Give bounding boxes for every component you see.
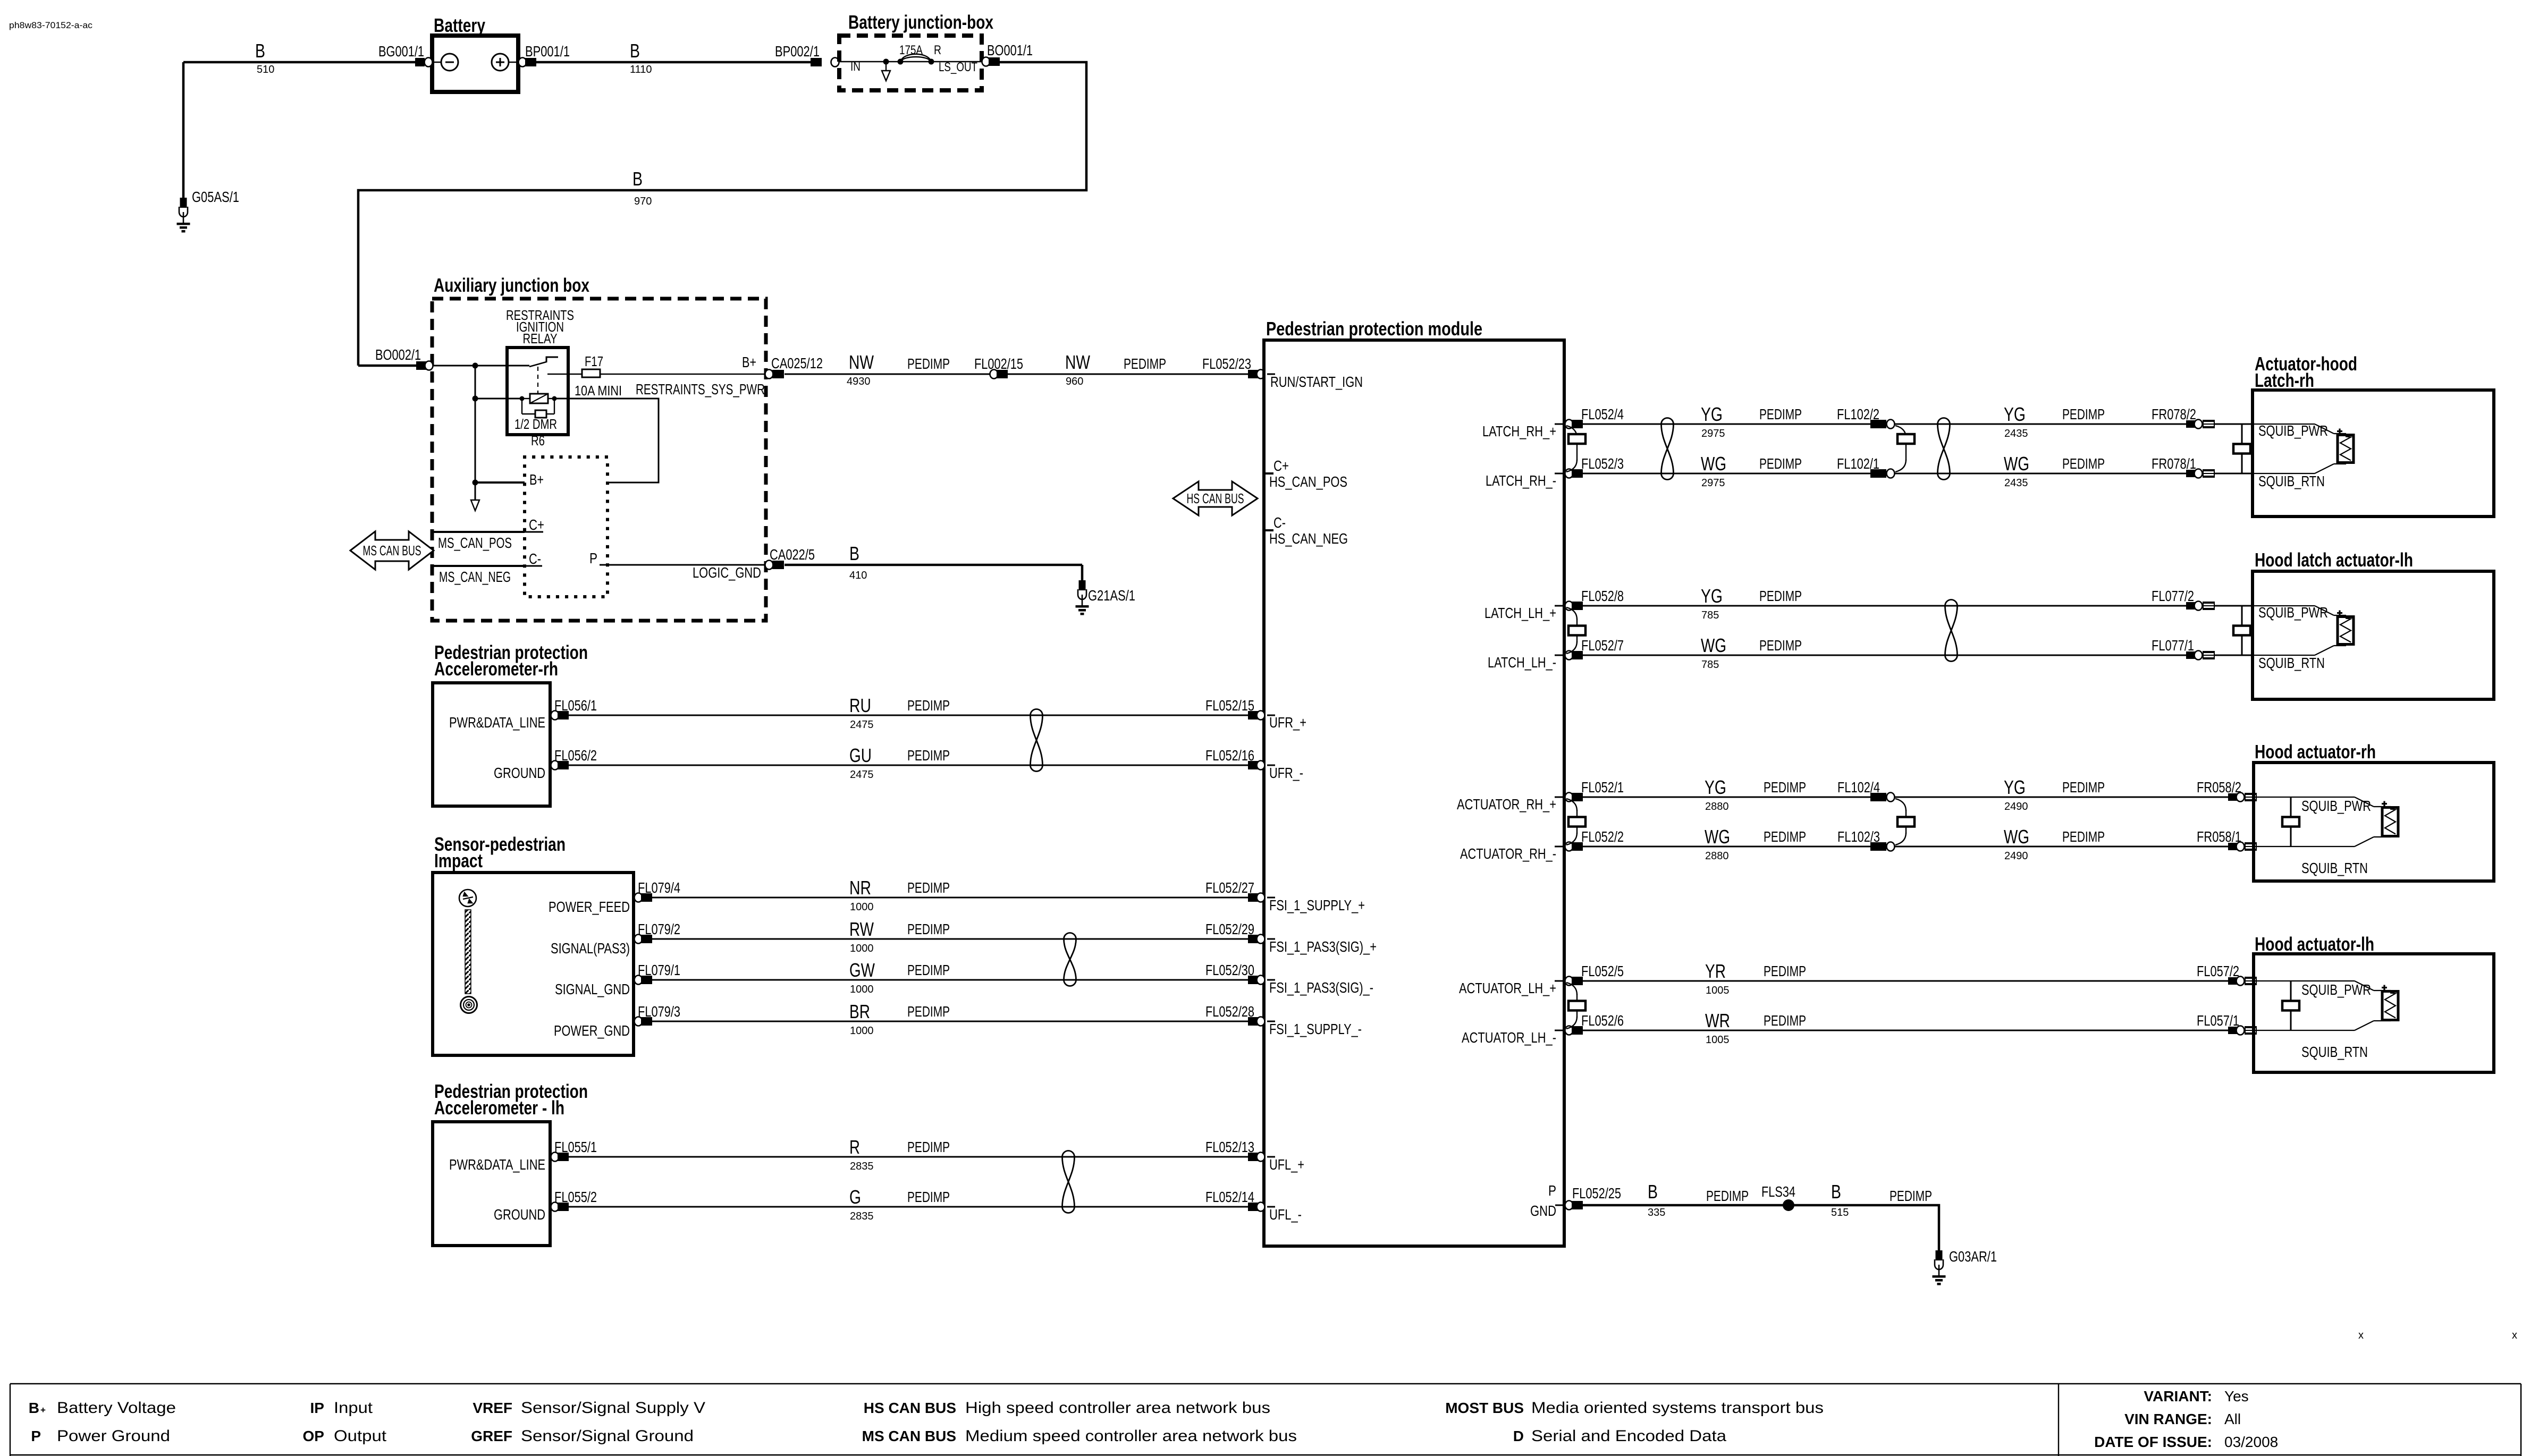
svg-text:B: B — [29, 1400, 39, 1416]
aux box internal module (dotted) — [525, 457, 608, 597]
wire RW 1000 FL079/2 to FL052/29 — [652, 938, 1248, 940]
svg-text:2490: 2490 — [2004, 850, 2028, 862]
svg-text:Serial and Encoded Data: Serial and Encoded Data — [1531, 1427, 1726, 1445]
svg-text:WG: WG — [2004, 826, 2029, 848]
svg-text:IP: IP — [310, 1400, 324, 1416]
svg-text:+: + — [40, 1405, 46, 1415]
wire B 515 — [1789, 1205, 1939, 1250]
squib in hood actuator-lh — [2290, 981, 2292, 1030]
svg-text:MS CAN BUS: MS CAN BUS — [862, 1428, 956, 1444]
svg-text:Battery junction-box: Battery junction-box — [848, 11, 993, 33]
svg-text:C-: C- — [1273, 514, 1286, 531]
svg-text:FSI_1_SUPPLY_-: FSI_1_SUPPLY_- — [1269, 1021, 1362, 1037]
svg-text:Battery: Battery — [434, 14, 485, 36]
svg-text:PEDIMP: PEDIMP — [907, 1139, 950, 1155]
impact sensor coil target icon — [461, 997, 477, 1013]
svg-text:FL052/6: FL052/6 — [1581, 1012, 1624, 1029]
svg-text:PWR&DATA_LINE: PWR&DATA_LINE — [449, 1156, 545, 1173]
svg-text:WR: WR — [1705, 1010, 1730, 1031]
impact sensor fibre optic element — [465, 910, 471, 994]
wire YR 1005 — [1583, 980, 2254, 982]
wire MS_CAN_POS — [433, 531, 525, 533]
svg-text:1110: 1110 — [630, 64, 652, 75]
svg-text:YG: YG — [1701, 403, 1723, 425]
svg-text:NW: NW — [849, 351, 874, 373]
svg-text:R: R — [849, 1136, 860, 1158]
svg-text:PEDIMP: PEDIMP — [1759, 406, 1802, 422]
svg-text:GND: GND — [1530, 1203, 1556, 1219]
svg-text:FL052/27: FL052/27 — [1205, 879, 1254, 896]
svg-text:03/2008: 03/2008 — [2224, 1434, 2278, 1450]
svg-text:Output: Output — [334, 1427, 387, 1445]
svg-text:PEDIMP: PEDIMP — [907, 921, 950, 937]
legend frame — [10, 1383, 2521, 1384]
svg-text:2880: 2880 — [1705, 801, 1729, 812]
relay switch blade — [529, 362, 546, 367]
wire BR 1000 FL079/3 to FL052/28 — [652, 1021, 1248, 1022]
svg-text:FL052/15: FL052/15 — [1205, 697, 1254, 714]
shorting link at FL052/4-3 — [1566, 426, 1577, 438]
svg-text:HS CAN BUS: HS CAN BUS — [864, 1400, 956, 1416]
svg-text:PEDIMP: PEDIMP — [907, 355, 950, 372]
svg-text:PEDIMP: PEDIMP — [1124, 355, 1166, 372]
svg-text:PEDIMP: PEDIMP — [907, 1003, 950, 1020]
svg-text:PEDIMP: PEDIMP — [1759, 455, 1802, 472]
svg-text:970: 970 — [634, 196, 652, 207]
svg-text:PEDIMP: PEDIMP — [2062, 406, 2105, 422]
svg-text:WG: WG — [1701, 453, 1726, 475]
shorting link at FL102 — [1895, 426, 1906, 438]
svg-text:2975: 2975 — [1701, 428, 1725, 439]
svg-text:C-: C- — [529, 551, 541, 567]
battery negative terminal — [441, 54, 458, 71]
svg-text:PEDIMP: PEDIMP — [1706, 1188, 1749, 1204]
shorting link at FL102/4-3 — [1895, 799, 1906, 811]
svg-text:HS_CAN_POS: HS_CAN_POS — [1269, 473, 1347, 490]
svg-text:LATCH_RH_-: LATCH_RH_- — [1486, 472, 1556, 489]
svg-text:785: 785 — [1701, 610, 1719, 621]
battery positive terminal — [492, 54, 509, 71]
svg-text:SQUIB_RTN: SQUIB_RTN — [2258, 655, 2325, 671]
svg-text:PEDIMP: PEDIMP — [907, 962, 950, 978]
svg-text:RUN/START_IGN: RUN/START_IGN — [1270, 374, 1363, 390]
shorting link at FL052/8-7 — [1566, 607, 1577, 620]
svg-text:FR078/2: FR078/2 — [2152, 406, 2196, 422]
svg-text:FL077/2: FL077/2 — [2152, 588, 2194, 604]
svg-text:2975: 2975 — [1701, 477, 1725, 489]
svg-text:All: All — [2224, 1411, 2241, 1427]
wire R 2835 FL055/1 to FL052/13 — [569, 1156, 1248, 1158]
resistor 1/2 DMR — [522, 398, 530, 399]
shorting link at FL077 — [2241, 606, 2243, 655]
svg-text:1000: 1000 — [850, 984, 874, 995]
wire LOGIC_GND — [608, 564, 766, 566]
svg-text:HS CAN BUS: HS CAN BUS — [1187, 490, 1244, 506]
svg-text:CA022/5: CA022/5 — [770, 546, 815, 563]
svg-text:Hood actuator-lh: Hood actuator-lh — [2255, 933, 2374, 955]
svg-text:Battery Voltage: Battery Voltage — [57, 1399, 176, 1417]
wire YG 785 — [1583, 605, 2253, 607]
wire B 410 — [785, 564, 1082, 566]
wire WG 785 — [1583, 655, 2253, 656]
svg-text:RU: RU — [849, 695, 871, 716]
svg-text:G: G — [849, 1186, 861, 1208]
svg-text:Media oriented systems transpo: Media oriented systems transport bus — [1531, 1399, 1824, 1417]
svg-text:POWER_FEED: POWER_FEED — [549, 899, 630, 915]
twisted pair — [1945, 600, 1958, 606]
svg-text:Accelerometer - lh: Accelerometer - lh — [434, 1097, 564, 1119]
svg-text:PEDIMP: PEDIMP — [907, 747, 950, 764]
svg-text:WG: WG — [1705, 826, 1730, 848]
twisted pair — [1031, 709, 1043, 716]
svg-text:B+: B+ — [529, 471, 544, 488]
svg-text:SQUIB_PWR: SQUIB_PWR — [2301, 981, 2371, 998]
svg-text:FL052/25: FL052/25 — [1572, 1185, 1621, 1201]
svg-text:Medium speed controller area n: Medium speed controller area network bus — [965, 1427, 1297, 1445]
svg-text:YR: YR — [1705, 960, 1726, 982]
relay coil — [475, 398, 522, 400]
svg-text:PEDIMP: PEDIMP — [1759, 637, 1802, 654]
svg-text:FR078/1: FR078/1 — [2152, 455, 2196, 472]
svg-text:GROUND: GROUND — [494, 1206, 545, 1223]
svg-text:2490: 2490 — [2004, 801, 2028, 812]
svg-text:UFR_-: UFR_- — [1269, 765, 1303, 781]
svg-text:B: B — [630, 40, 640, 62]
svg-text:PEDIMP: PEDIMP — [1764, 779, 1806, 795]
ground G03AR/1 — [1936, 1250, 1943, 1260]
junction node — [473, 363, 478, 369]
svg-text:Sensor/Signal Supply V: Sensor/Signal Supply V — [521, 1399, 705, 1417]
svg-text:GW: GW — [849, 959, 875, 981]
ground reference arrow — [475, 484, 476, 500]
svg-text:FR058/1: FR058/1 — [2197, 828, 2241, 845]
svg-text:FL052/16: FL052/16 — [1205, 747, 1254, 764]
svg-text:MS CAN BUS: MS CAN BUS — [363, 543, 421, 558]
svg-text:B: B — [255, 40, 265, 62]
svg-text:2475: 2475 — [850, 719, 874, 731]
wire NW 4930 — [785, 374, 1248, 375]
wire BO002/1 to relay — [433, 365, 529, 367]
wire to BO002/1 — [358, 365, 416, 367]
svg-text:Hood actuator-rh: Hood actuator-rh — [2255, 741, 2376, 763]
svg-text:FL052/1: FL052/1 — [1581, 779, 1624, 795]
svg-text:Yes: Yes — [2224, 1388, 2249, 1404]
wire WG 2975 — [1583, 473, 2253, 475]
svg-text:ACTUATOR_LH_-: ACTUATOR_LH_- — [1462, 1029, 1556, 1046]
svg-text:515: 515 — [1831, 1207, 1849, 1218]
svg-text:MS_CAN_NEG: MS_CAN_NEG — [439, 569, 511, 585]
svg-text:PEDIMP: PEDIMP — [2062, 828, 2105, 845]
svg-text:410: 410 — [849, 570, 867, 581]
svg-text:510: 510 — [257, 64, 274, 75]
svg-text:FL002/15: FL002/15 — [974, 355, 1023, 372]
svg-text:SQUIB_RTN: SQUIB_RTN — [2301, 860, 2368, 876]
wire NR 1000 FL079/4 to FL052/27 — [652, 897, 1248, 899]
svg-text:PEDIMP: PEDIMP — [1764, 1012, 1806, 1029]
svg-text:FL052/3: FL052/3 — [1581, 455, 1624, 472]
svg-text:1005: 1005 — [1706, 985, 1730, 996]
svg-text:F17: F17 — [585, 353, 603, 369]
svg-text:LS_OUT: LS_OUT — [939, 60, 977, 74]
shorting link at FR078 — [2241, 424, 2243, 473]
svg-text:SQUIB_PWR: SQUIB_PWR — [2258, 422, 2328, 439]
svg-text:GU: GU — [849, 744, 872, 766]
svg-text:BP001/1: BP001/1 — [525, 43, 570, 60]
svg-text:Power Ground: Power Ground — [57, 1427, 170, 1445]
pin P GND connector FL052/25 — [1555, 1205, 1564, 1206]
wire junction to B+ pin — [475, 481, 525, 484]
svg-text:SIGNAL(PAS3): SIGNAL(PAS3) — [551, 940, 630, 956]
svg-text:YG: YG — [1701, 585, 1723, 607]
svg-text:LOGIC_GND: LOGIC_GND — [693, 564, 761, 581]
wire GW 1000 FL079/1 to FL052/30 — [652, 979, 1248, 981]
ground G21AS/1 — [1079, 580, 1086, 590]
shorting link at FL052/5-6 — [1566, 983, 1577, 995]
svg-text:960: 960 — [1066, 376, 1083, 387]
svg-text:Pedestrian protection module: Pedestrian protection module — [1266, 318, 1482, 340]
svg-text:BG001/1: BG001/1 — [378, 43, 424, 60]
wire RU 2475 FL056/1 to FL052/15 — [569, 715, 1248, 716]
svg-text:GREF: GREF — [471, 1428, 512, 1444]
wire coil to B+ pin — [554, 399, 659, 482]
svg-text:FSI_1_PAS3(SIG)_+: FSI_1_PAS3(SIG)_+ — [1269, 938, 1377, 955]
svg-text:2475: 2475 — [850, 769, 874, 781]
svg-text:10A MINI: 10A MINI — [575, 383, 622, 399]
svg-text:BO002/1: BO002/1 — [375, 346, 421, 363]
svg-text:FL077/1: FL077/1 — [2152, 637, 2194, 654]
svg-text:FL052/8: FL052/8 — [1581, 588, 1624, 604]
svg-text:2835: 2835 — [850, 1161, 874, 1172]
svg-text:B: B — [849, 543, 859, 564]
svg-text:CA025/12: CA025/12 — [771, 355, 823, 371]
svg-text:P: P — [589, 550, 597, 566]
svg-text:BR: BR — [849, 1001, 870, 1022]
svg-text:Hood latch actuator-lh: Hood latch actuator-lh — [2255, 549, 2413, 571]
svg-text:Latch-rh: Latch-rh — [2255, 369, 2314, 391]
svg-text:FSI_1_SUPPLY_+: FSI_1_SUPPLY_+ — [1269, 897, 1365, 913]
svg-text:x: x — [2358, 1330, 2364, 1341]
svg-text:x: x — [2512, 1330, 2517, 1341]
wire B 335 — [1583, 1204, 1789, 1207]
fusible link 175A R — [900, 54, 931, 62]
ground G05AS/1 — [182, 62, 185, 198]
svg-text:HS_CAN_NEG: HS_CAN_NEG — [1269, 530, 1348, 547]
svg-text:FLS34: FLS34 — [1761, 1183, 1795, 1200]
svg-text:YG: YG — [2004, 776, 2026, 798]
svg-text:ACTUATOR_RH_-: ACTUATOR_RH_- — [1460, 845, 1556, 862]
svg-text:G03AR/1: G03AR/1 — [1949, 1248, 1997, 1265]
wire G 2835 FL055/2 to FL052/14 — [569, 1206, 1248, 1208]
twisted pair — [1938, 418, 1950, 425]
svg-text:ph8w83-70152-a-ac: ph8w83-70152-a-ac — [9, 20, 93, 30]
svg-text:B: B — [1648, 1181, 1658, 1203]
svg-text:DATE OF ISSUE:: DATE OF ISSUE: — [2094, 1434, 2212, 1450]
svg-text:2880: 2880 — [1705, 850, 1729, 862]
ground reference arrow in battery junction-box — [885, 64, 887, 71]
fuse F17 10A MINI — [547, 374, 766, 375]
wire WG 2880 — [1583, 846, 2254, 848]
svg-text:UFL_+: UFL_+ — [1269, 1156, 1304, 1173]
svg-text:FL052/2: FL052/2 — [1581, 828, 1624, 845]
wire B 970 — [358, 62, 1086, 366]
module pin stubs — [1267, 374, 1275, 375]
svg-text:PEDIMP: PEDIMP — [907, 879, 950, 896]
squib in hood actuator-rh — [2290, 797, 2292, 846]
svg-text:785: 785 — [1701, 659, 1719, 671]
svg-text:FL052/7: FL052/7 — [1581, 637, 1624, 654]
squib in actuator-hood latch-rh — [2254, 424, 2315, 425]
twisted pair — [1062, 1151, 1075, 1157]
svg-text:BO001/1: BO001/1 — [987, 42, 1033, 58]
svg-text:FL052/28: FL052/28 — [1205, 1003, 1254, 1020]
svg-text:D: D — [1513, 1428, 1524, 1444]
svg-text:PEDIMP: PEDIMP — [1764, 963, 1806, 979]
svg-text:P: P — [31, 1428, 41, 1444]
squib in hood latch actuator-lh — [2254, 605, 2315, 606]
MS CAN BUS arrow — [350, 531, 434, 570]
svg-text:FL052/13: FL052/13 — [1205, 1139, 1254, 1155]
svg-text:LATCH_RH_+: LATCH_RH_+ — [1482, 423, 1556, 439]
svg-text:G21AS/1: G21AS/1 — [1088, 587, 1135, 604]
svg-text:FR058/2: FR058/2 — [2197, 779, 2241, 795]
HS CAN BUS arrow — [1173, 481, 1258, 515]
wire MS_CAN_NEG — [433, 565, 525, 567]
svg-text:ACTUATOR_LH_+: ACTUATOR_LH_+ — [1459, 980, 1556, 996]
twisted pair — [1661, 418, 1674, 425]
svg-text:SQUIB_PWR: SQUIB_PWR — [2301, 798, 2371, 814]
svg-text:335: 335 — [1648, 1207, 1665, 1218]
svg-text:1005: 1005 — [1706, 1034, 1730, 1046]
svg-text:Impact: Impact — [434, 850, 483, 871]
svg-text:IN: IN — [850, 60, 861, 74]
svg-text:FL052/4: FL052/4 — [1581, 406, 1624, 422]
svg-text:1000: 1000 — [850, 1025, 874, 1037]
bus bar vertical wire — [475, 366, 476, 482]
svg-text:P: P — [1548, 1182, 1556, 1199]
relay actuate dashed line — [537, 367, 538, 394]
svg-text:Input: Input — [334, 1399, 373, 1417]
wire B 510 battery negative to ground — [183, 61, 416, 64]
twisted pair — [1064, 933, 1076, 939]
svg-text:C+: C+ — [529, 517, 544, 533]
svg-text:RW: RW — [849, 918, 874, 940]
svg-text:2835: 2835 — [850, 1210, 874, 1222]
svg-text:SQUIB_RTN: SQUIB_RTN — [2258, 473, 2325, 489]
svg-text:1000: 1000 — [850, 901, 874, 913]
svg-text:NW: NW — [1065, 351, 1090, 373]
svg-text:B+: B+ — [742, 354, 756, 370]
svg-text:B: B — [632, 168, 643, 190]
svg-text:FL052/30: FL052/30 — [1205, 962, 1254, 978]
svg-text:2435: 2435 — [2004, 477, 2028, 489]
wire B 1110 — [536, 61, 822, 64]
wire YG 2975 — [1583, 424, 2253, 425]
svg-text:Auxiliary junction box: Auxiliary junction box — [434, 274, 589, 296]
svg-text:UFL_-: UFL_- — [1269, 1206, 1302, 1223]
shorting link at FL052/1-2 — [1566, 799, 1577, 811]
svg-text:PEDIMP: PEDIMP — [2062, 455, 2105, 472]
junction node IN — [883, 59, 889, 65]
svg-text:PEDIMP: PEDIMP — [1759, 588, 1802, 604]
svg-text:R: R — [934, 43, 941, 57]
svg-text:SQUIB_PWR: SQUIB_PWR — [2258, 604, 2328, 621]
svg-text:WG: WG — [2004, 453, 2029, 475]
svg-text:1/2 DMR: 1/2 DMR — [514, 416, 557, 432]
svg-text:VARIANT:: VARIANT: — [2144, 1388, 2212, 1404]
svg-text:2435: 2435 — [2004, 428, 2028, 439]
svg-text:YG: YG — [2004, 403, 2026, 425]
svg-text:OP: OP — [303, 1428, 324, 1444]
svg-text:B: B — [1831, 1181, 1841, 1203]
svg-text:LATCH_LH_+: LATCH_LH_+ — [1484, 605, 1556, 621]
svg-text:GROUND: GROUND — [494, 765, 545, 781]
svg-text:FL052/29: FL052/29 — [1205, 921, 1254, 937]
svg-text:FL057/2: FL057/2 — [2197, 963, 2239, 979]
svg-text:Sensor/Signal Ground: Sensor/Signal Ground — [521, 1427, 694, 1445]
svg-text:G05AS/1: G05AS/1 — [192, 189, 239, 205]
svg-text:R6: R6 — [531, 433, 545, 448]
svg-text:PEDIMP: PEDIMP — [1890, 1188, 1932, 1204]
svg-text:FL052/5: FL052/5 — [1581, 963, 1624, 979]
svg-text:POWER_GND: POWER_GND — [554, 1022, 630, 1039]
wire WR 1005 — [1583, 1030, 2254, 1031]
svg-text:FL052/14: FL052/14 — [1205, 1189, 1254, 1205]
svg-text:FL052/23: FL052/23 — [1202, 355, 1251, 372]
svg-text:Accelerometer-rh: Accelerometer-rh — [434, 658, 558, 680]
svg-text:VIN RANGE:: VIN RANGE: — [2124, 1411, 2212, 1427]
wire GU 2475 FL056/2 to FL052/16 — [569, 765, 1248, 766]
svg-text:SIGNAL_GND: SIGNAL_GND — [555, 981, 630, 997]
wire inside battery junction-box — [839, 61, 982, 62]
svg-text:MS_CAN_POS: MS_CAN_POS — [438, 535, 512, 551]
svg-text:RELAY: RELAY — [523, 331, 558, 346]
svg-text:C+: C+ — [1273, 458, 1289, 474]
impact sensor optical emitter icon — [459, 890, 476, 907]
svg-text:ACTUATOR_RH_+: ACTUATOR_RH_+ — [1457, 796, 1556, 812]
svg-text:PWR&DATA_LINE: PWR&DATA_LINE — [449, 714, 545, 731]
svg-text:RESTRAINTS_SYS_PWR: RESTRAINTS_SYS_PWR — [636, 381, 765, 397]
svg-text:PEDIMP: PEDIMP — [2062, 779, 2105, 795]
svg-text:1000: 1000 — [850, 943, 874, 954]
wire YG 2880 — [1583, 797, 2254, 798]
svg-text:YG: YG — [1705, 776, 1726, 798]
svg-text:WG: WG — [1701, 634, 1726, 656]
svg-text:4930: 4930 — [847, 376, 871, 387]
svg-text:NR: NR — [849, 877, 871, 899]
svg-text:MOST BUS: MOST BUS — [1445, 1400, 1524, 1416]
svg-text:FSI_1_PAS3(SIG)_-: FSI_1_PAS3(SIG)_- — [1269, 979, 1373, 996]
svg-text:PEDIMP: PEDIMP — [907, 1189, 950, 1205]
svg-text:FL057/1: FL057/1 — [2197, 1012, 2239, 1029]
svg-text:175A: 175A — [899, 43, 923, 57]
svg-text:LATCH_LH_-: LATCH_LH_- — [1488, 654, 1556, 671]
svg-text:PEDIMP: PEDIMP — [1764, 828, 1806, 845]
svg-text:High speed controller area net: High speed controller area network bus — [965, 1399, 1270, 1417]
svg-text:PEDIMP: PEDIMP — [907, 697, 950, 714]
svg-text:UFR_+: UFR_+ — [1269, 714, 1306, 731]
svg-text:BP002/1: BP002/1 — [775, 43, 820, 60]
svg-text:SQUIB_RTN: SQUIB_RTN — [2301, 1044, 2368, 1060]
svg-text:VREF: VREF — [473, 1400, 512, 1416]
